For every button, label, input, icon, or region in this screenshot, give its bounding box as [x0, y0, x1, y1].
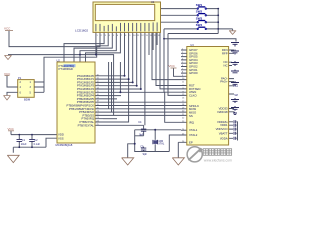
svg-text:NC: NC	[224, 64, 228, 68]
svg-text:www.elecfans.com: www.elecfans.com	[204, 159, 232, 163]
svg-text:U3: U3	[190, 43, 194, 47]
svg-text:GPIO0: GPIO0	[189, 71, 198, 75]
svg-text:PA1: PA1	[233, 85, 238, 88]
svg-text:SW2: SW2	[196, 10, 203, 14]
svg-text:LCD1602: LCD1602	[75, 29, 88, 33]
svg-text:VCC: VCC	[8, 127, 15, 131]
svg-text:PTB7/EXTAL: PTB7/EXTAL	[78, 123, 95, 127]
svg-text:RFP: RFP	[222, 51, 228, 55]
svg-text:PT448RGD: PT448RGD	[59, 67, 73, 71]
svg-text:0.1uF: 0.1uF	[34, 143, 41, 146]
svg-text:BDM: BDM	[24, 98, 31, 102]
svg-text:9pF: 9pF	[139, 134, 144, 137]
svg-text:VSS: VSS	[58, 136, 64, 140]
svg-text:VDDA: VDDA	[220, 136, 228, 140]
svg-text:SM: SM	[234, 94, 238, 97]
svg-text:XTAL: XTAL	[158, 143, 165, 146]
svg-text:VCC: VCC	[4, 72, 11, 76]
svg-text:SS: SS	[189, 114, 193, 118]
svg-text:CLKO: CLKO	[189, 93, 197, 97]
svg-text:VCC: VCC	[4, 27, 11, 31]
svg-text:IRQ: IRQ	[189, 120, 195, 124]
svg-text:EP: EP	[189, 140, 193, 144]
svg-text:MC9S08QG8: MC9S08QG8	[56, 143, 73, 147]
svg-text:P1: P1	[18, 76, 22, 80]
svg-text:XTAL2: XTAL2	[189, 133, 198, 137]
svg-text:U1: U1	[151, 0, 155, 4]
svg-text:10uF: 10uF	[21, 143, 27, 146]
svg-text:PAO+: PAO+	[220, 80, 228, 84]
svg-text:SW4: SW4	[196, 23, 203, 27]
svg-text:U2: U2	[57, 59, 61, 63]
svg-text:SW3: SW3	[196, 17, 203, 21]
svg-text:VBATT: VBATT	[219, 131, 228, 135]
svg-text:9pF: 9pF	[143, 153, 148, 156]
svg-text:VCC: VCC	[169, 64, 176, 68]
svg-text:XTAL1: XTAL1	[189, 128, 198, 132]
svg-text:V2DD18: V2DD18	[217, 110, 228, 114]
svg-text:SW1: SW1	[196, 3, 203, 7]
